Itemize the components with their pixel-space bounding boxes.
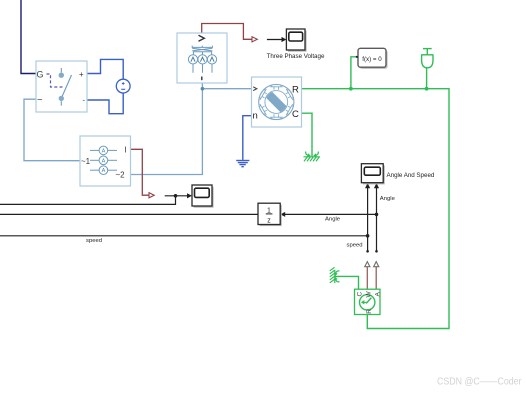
svg-text:C: C — [357, 292, 364, 297]
svg-text:f(x) = 0: f(x) = 0 — [362, 56, 382, 63]
svg-text:A: A — [102, 148, 106, 154]
svg-text:G: G — [37, 70, 44, 80]
svg-text:Angle: Angle — [325, 216, 341, 222]
svg-text:CSDN @C——Coder: CSDN @C——Coder — [437, 376, 522, 388]
svg-text:A: A — [102, 168, 106, 174]
svg-text:~: ~ — [37, 95, 43, 106]
svg-text:C: C — [292, 109, 299, 120]
svg-text:W: W — [366, 291, 373, 298]
svg-text:speed: speed — [86, 238, 102, 244]
svg-text:Angle: Angle — [380, 196, 396, 202]
svg-text:+: + — [79, 70, 84, 79]
svg-text:R: R — [292, 85, 299, 96]
svg-text:~2: ~2 — [116, 171, 126, 180]
svg-text:A: A — [102, 158, 106, 164]
svg-text:z: z — [267, 218, 271, 225]
svg-text:~1: ~1 — [81, 157, 91, 166]
svg-text:n: n — [253, 111, 258, 122]
svg-text:I: I — [125, 146, 127, 155]
svg-text:Angle And Speed: Angle And Speed — [387, 172, 435, 179]
svg-text:speed: speed — [347, 242, 363, 248]
svg-text:A: A — [375, 292, 382, 297]
svg-text:Three Phase Voltage: Three Phase Voltage — [267, 53, 325, 60]
svg-text:R: R — [366, 309, 373, 314]
